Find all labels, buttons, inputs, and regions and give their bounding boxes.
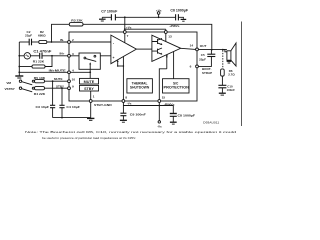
mute switch box xyxy=(79,53,100,69)
wire top supply line xyxy=(102,16,111,18)
svg-text:13: 13 xyxy=(168,34,172,38)
node R1 junction xyxy=(51,55,53,57)
svg-text:SHUTDOWN: SHUTDOWN xyxy=(130,86,150,90)
svg-text:STBY: STBY xyxy=(56,85,64,89)
svg-text:D93AU011: D93AU011 xyxy=(203,120,220,124)
svg-text:3: 3 xyxy=(72,52,74,56)
svg-text:22µF: 22µF xyxy=(199,57,206,61)
svg-text:MUTE: MUTE xyxy=(84,80,95,84)
node rail R1 xyxy=(18,66,20,68)
capacitor C6 xyxy=(176,14,179,20)
pin 13 circle xyxy=(164,31,167,34)
wire pin4 internal xyxy=(70,71,90,73)
wire OUT line xyxy=(198,48,227,50)
capacitor C5 xyxy=(207,54,215,56)
ground GND C8 xyxy=(170,122,177,124)
wire pin7 riser xyxy=(124,17,126,31)
svg-text:R3 22K: R3 22K xyxy=(71,19,83,23)
sc protection block xyxy=(163,79,190,93)
svg-text:STRAP: STRAP xyxy=(202,71,212,75)
wire zobel dashed xyxy=(222,50,224,68)
svg-text:R5 10K: R5 10K xyxy=(34,76,46,80)
op-amp triangle A1 xyxy=(111,35,136,64)
wire C3 riser xyxy=(52,81,54,105)
svg-text:+Vs: +Vs xyxy=(126,25,132,29)
svg-text:OUT: OUT xyxy=(200,44,207,48)
svg-text:8: 8 xyxy=(125,96,127,100)
pin 3 circle xyxy=(68,54,71,57)
svg-text:IN-: IN- xyxy=(60,38,64,42)
svg-text:C7 100nF: C7 100nF xyxy=(101,9,117,13)
resistor R2 xyxy=(39,40,47,43)
node pin4 tee xyxy=(89,71,91,73)
current source arrow A2 xyxy=(166,56,168,68)
resistor R3 xyxy=(69,23,83,26)
node rail inmute xyxy=(18,71,20,73)
frame right border xyxy=(241,22,243,127)
node +Vs junction xyxy=(158,16,160,18)
node vin junction xyxy=(18,55,20,57)
current source arrow A1 xyxy=(117,61,119,66)
transistor Q2 xyxy=(152,48,162,54)
speaker LS xyxy=(223,50,227,52)
node bus pin7 xyxy=(124,28,126,30)
node feedback junction xyxy=(51,41,53,43)
wire pin8 stub xyxy=(122,102,124,105)
node C4 tap xyxy=(61,87,63,89)
svg-text:14: 14 xyxy=(190,43,194,47)
wire A1 supply entry xyxy=(124,33,126,42)
svg-text:VSTBY: VSTBY xyxy=(4,87,15,91)
svg-text:+Vs: +Vs xyxy=(156,8,162,12)
wire bias to pin15 xyxy=(159,69,167,100)
op-amp triangle A2 power stage xyxy=(152,35,181,61)
svg-text:C4 10µF: C4 10µF xyxy=(66,105,80,109)
svg-text:2: 2 xyxy=(72,38,74,42)
svg-text:Note: The Boucherot cell R6, C: Note: The Boucherot cell R6, C10, normal… xyxy=(25,130,237,134)
source VIN xyxy=(24,53,30,59)
svg-text:680Ω: 680Ω xyxy=(38,33,46,37)
pin 4 circle xyxy=(68,71,71,74)
svg-text:R4 22K: R4 22K xyxy=(34,92,46,96)
pin 1 circle xyxy=(89,100,92,103)
capacitor C4 xyxy=(59,105,64,107)
svg-text:-Vs: -Vs xyxy=(157,124,162,128)
svg-text:7: 7 xyxy=(127,34,129,38)
svg-text:STBY-GND: STBY-GND xyxy=(94,103,113,107)
svg-text:15: 15 xyxy=(162,95,166,99)
resistor R1 xyxy=(32,65,45,68)
wire R5 to pin10 xyxy=(45,80,69,82)
node pin15 rail xyxy=(158,105,160,107)
svg-text:be useful in presence of parti: be useful in presence of particular load… xyxy=(42,136,136,140)
svg-text:C3 10µF: C3 10µF xyxy=(36,105,50,109)
svg-text:C1 470nF: C1 470nF xyxy=(33,50,51,54)
svg-text:IN+MUTE: IN+MUTE xyxy=(49,68,66,72)
wire source to C1 xyxy=(31,55,40,57)
pin 15 circle xyxy=(158,100,161,103)
wire pin8 riser xyxy=(122,57,124,100)
switch mute contact b xyxy=(94,55,96,57)
svg-text:22µF: 22µF xyxy=(25,33,32,37)
wire pin1 riser xyxy=(90,102,92,118)
wire supply bus xyxy=(125,28,166,30)
ground GND input rail xyxy=(15,76,23,78)
svg-text:1: 1 xyxy=(93,95,95,99)
svg-text:PROTECTION: PROTECTION xyxy=(164,86,190,90)
svg-text:STBY: STBY xyxy=(84,87,95,91)
thermal shutdown block xyxy=(127,79,152,93)
wire pin13 riser xyxy=(165,29,167,31)
pin 2 circle xyxy=(68,41,71,44)
transistor Q1 xyxy=(152,38,162,44)
wire C2 line xyxy=(19,41,29,43)
wire C4 riser xyxy=(61,88,63,105)
wire mute drive arrow xyxy=(89,64,91,79)
capacitor C2 xyxy=(29,39,31,46)
ground GND C10 xyxy=(219,93,226,95)
capacitor C8 xyxy=(172,106,174,114)
switch VSTBY blade xyxy=(22,89,32,92)
wire R1 to rail xyxy=(19,66,32,68)
capacitor C9 xyxy=(122,106,124,114)
svg-text:R1 22K: R1 22K xyxy=(33,60,45,64)
svg-text:+PWVs: +PWVs xyxy=(169,24,180,28)
node pin7 riser top xyxy=(124,16,126,18)
wire feedback line xyxy=(52,24,212,49)
wire R4 to pin9 xyxy=(45,87,69,89)
svg-text:C6 1000µF: C6 1000µF xyxy=(170,8,188,12)
resistor R6 xyxy=(221,69,225,76)
wire bias link xyxy=(118,65,124,67)
switch mute contact a xyxy=(84,57,86,59)
ground GND C9 xyxy=(120,120,127,122)
resistor R5 xyxy=(35,80,45,83)
wire to source xyxy=(19,55,24,57)
wire bottom gnd line xyxy=(53,117,91,119)
terminal VSTBY xyxy=(19,87,21,89)
pin 7 circle xyxy=(123,31,126,34)
wire IN+MUTE line xyxy=(19,71,68,73)
wire C5 to pin6 xyxy=(198,57,211,67)
wire C5 drop xyxy=(210,50,212,54)
wire R6 to C10 xyxy=(221,76,223,85)
switch mute blade xyxy=(86,59,97,62)
svg-text:9: 9 xyxy=(72,84,74,88)
wire R2 to pin2 xyxy=(47,41,68,43)
pin 9 circle xyxy=(68,87,71,90)
switch VM contact xyxy=(32,80,34,82)
pin 6 circle xyxy=(196,65,199,68)
node C3 tap xyxy=(52,80,54,82)
wire left ground rail xyxy=(18,42,20,76)
capacitor C3 xyxy=(50,105,55,107)
node zobel tap xyxy=(222,49,224,51)
ground GND C6 xyxy=(181,19,187,21)
node C4 bottom xyxy=(61,117,63,119)
op-amp U1 IC box xyxy=(69,32,197,101)
resistor R4 xyxy=(35,87,45,90)
svg-text:100nF: 100nF xyxy=(227,88,236,92)
switch VSTBY contact xyxy=(32,87,34,89)
wire pin2 internal xyxy=(70,41,111,43)
pin 8 circle xyxy=(122,100,125,103)
wire pin3 internal xyxy=(70,55,111,57)
capacitor C1 xyxy=(40,53,42,59)
capacitor C10 xyxy=(218,85,226,88)
wire A1 to A2 xyxy=(136,48,152,50)
svg-text:2.7Ω: 2.7Ω xyxy=(228,72,235,76)
pin 10 circle xyxy=(68,80,71,83)
node feedback tap xyxy=(211,49,213,51)
wire A2 supply entry xyxy=(165,33,167,41)
wire sc riser xyxy=(173,52,175,79)
svg-text:10: 10 xyxy=(72,77,76,81)
ground GND speaker xyxy=(227,61,232,63)
terminal VM xyxy=(19,80,21,82)
wire pin15 stub xyxy=(158,102,160,105)
svg-text:4: 4 xyxy=(72,68,74,72)
svg-text:6: 6 xyxy=(190,65,192,69)
svg-text:MUTE: MUTE xyxy=(54,77,63,81)
terminal -Vs xyxy=(158,106,160,121)
capacitor C7 xyxy=(111,14,115,20)
pin 14 circle xyxy=(196,48,199,51)
svg-text:C8 1000µF: C8 1000µF xyxy=(178,113,196,117)
svg-text:-Vs: -Vs xyxy=(127,101,132,105)
wire bottom rail xyxy=(123,105,173,107)
svg-text:IN+: IN+ xyxy=(60,52,65,56)
wire stby to pin1 xyxy=(90,91,92,100)
mute block xyxy=(80,78,99,84)
svg-text:VM: VM xyxy=(6,81,11,85)
terminal +Vs xyxy=(157,12,160,15)
svg-text:+: + xyxy=(113,56,115,60)
switch VM blade xyxy=(22,82,32,85)
stby block xyxy=(80,85,99,91)
wire R1 branch xyxy=(45,56,52,67)
wire C1 to pin3 xyxy=(42,55,68,57)
svg-text:C9 100nF: C9 100nF xyxy=(130,113,146,117)
svg-text:-PWVs: -PWVs xyxy=(164,102,175,106)
wire A2 output xyxy=(181,48,196,49)
ground GND C7 xyxy=(101,17,103,18)
ground GND stby xyxy=(87,118,94,120)
